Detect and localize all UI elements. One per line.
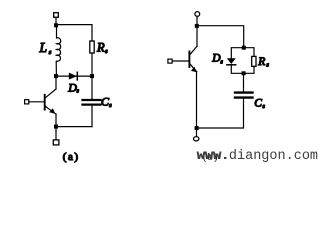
wire parallel box bottom bar <box>231 65 254 74</box>
svg-text:L: L <box>39 40 48 55</box>
wire top horizontal <box>56 25 92 41</box>
diode Ds (right) <box>227 58 236 64</box>
capacitor Cs <box>83 99 101 101</box>
transistor V1 base bar <box>44 95 46 110</box>
terminal top-left input <box>54 13 59 18</box>
wire collector rail <box>55 76 57 89</box>
capacitor Cs (right) <box>235 91 253 93</box>
node diode right <box>90 74 94 78</box>
transistor V1 base terminal <box>25 100 29 104</box>
wire parallel box top bar <box>231 48 254 58</box>
terminal bottom-left <box>53 140 59 145</box>
svg-text:s: s <box>109 103 112 109</box>
node parallel bottom <box>242 71 246 75</box>
inductor Ls <box>56 27 61 76</box>
node parallel top <box>242 46 246 50</box>
wire collector rail <box>196 26 198 46</box>
svg-text:s: s <box>49 49 52 56</box>
wire emitter rail <box>55 114 57 127</box>
transistor V2 emitter <box>190 64 197 72</box>
node bottom-left <box>54 125 58 129</box>
terminal top-right input <box>195 12 200 17</box>
diode Ds <box>69 73 77 80</box>
svg-text:s: s <box>221 60 224 66</box>
wire top horizontal to RC branch <box>197 26 244 48</box>
wire node to capacitor <box>243 73 245 91</box>
svg-text:C: C <box>254 98 262 110</box>
resistor Rs (right) <box>252 56 256 66</box>
terminal bottom-right <box>194 137 199 141</box>
svg-text:R: R <box>257 56 265 68</box>
wire terminal to junction <box>55 17 57 25</box>
svg-text:s: s <box>267 63 270 69</box>
wire diode node to capacitor <box>91 76 93 99</box>
node bottom-right <box>195 126 199 130</box>
transistor V1 emitter <box>45 106 56 114</box>
transistor V2 collector <box>190 46 197 54</box>
node junction top-left <box>54 23 58 27</box>
wire diode row <box>56 75 92 77</box>
resistor Rs <box>90 41 94 53</box>
wire bottom horizontal <box>56 126 92 128</box>
transistor V2 base wire <box>172 60 189 62</box>
transistor V1 collector <box>45 89 56 98</box>
wire terminal to junction <box>196 16 198 26</box>
wire node to bottom terminal <box>196 130 198 137</box>
transistor V2 emitter arrow <box>191 67 197 73</box>
svg-text:s: s <box>77 89 80 95</box>
wire node to bottom terminal <box>55 128 57 140</box>
svg-text:R: R <box>96 41 105 55</box>
node junction top-right <box>195 24 199 28</box>
svg-text:(a): (a) <box>63 151 80 163</box>
wire capacitor down to bottom <box>197 99 244 128</box>
node diode left <box>54 74 58 78</box>
svg-text:www.: www. <box>197 149 229 164</box>
transistor V2 base terminal <box>168 59 172 63</box>
transistor V1 base wire <box>29 101 44 103</box>
wire emitter rail <box>196 72 198 128</box>
wire resistor to diode node <box>91 53 93 76</box>
transistor V2 base bar <box>188 52 190 68</box>
svg-text:s: s <box>105 49 108 55</box>
svg-text:s: s <box>263 104 266 110</box>
wire capacitor to bottom <box>91 106 93 127</box>
transistor V1 emitter arrow <box>49 108 55 114</box>
